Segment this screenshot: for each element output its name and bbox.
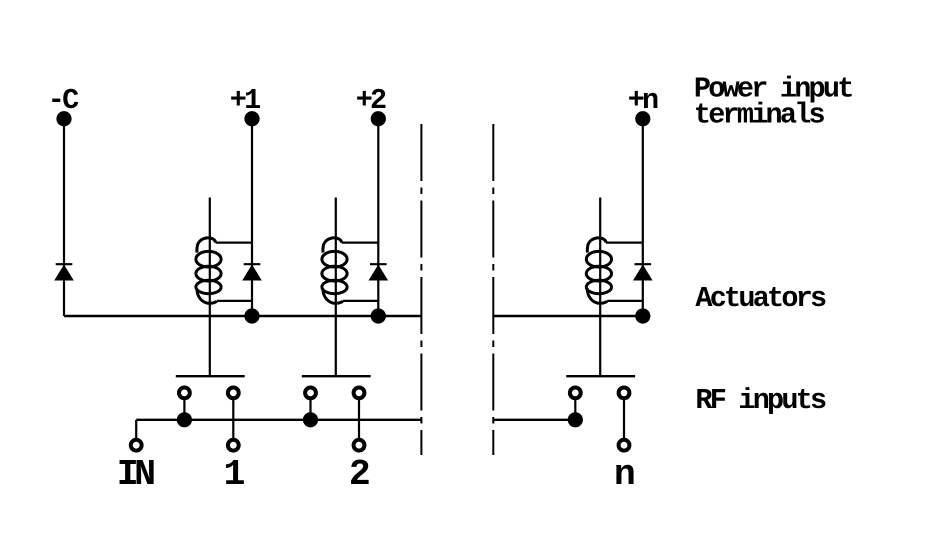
- wire S2 right contact: [358, 393, 360, 445]
- svg-text:+2: +2: [356, 84, 386, 117]
- svg-text:+n: +n: [628, 84, 658, 117]
- RF input port IN: [131, 440, 142, 451]
- diode D2: [243, 264, 261, 280]
- wire S3 right contact: [623, 393, 625, 445]
- wire actuator bus (left): [64, 315, 421, 317]
- wire S1 left contact: [183, 393, 185, 420]
- contact S1 upper left: [179, 388, 190, 399]
- wire S3 left contact: [574, 393, 576, 420]
- wire S2 left contact: [309, 393, 311, 420]
- switch S3 armature bar: [566, 375, 635, 377]
- break line (right): [492, 124, 494, 455]
- wire S1 right contact: [232, 393, 234, 445]
- contact S3 upper right: [619, 388, 630, 399]
- wire coil top connector K1: [216, 242, 252, 244]
- svg-text:1: 1: [224, 454, 245, 495]
- wire RF input bus (right): [493, 419, 575, 421]
- diode D4: [634, 264, 652, 280]
- switch S1 armature bar: [176, 375, 245, 377]
- relay coil K3: [586, 238, 611, 304]
- diode D1 (on -C branch): [55, 264, 73, 280]
- junction +2/bus: [371, 308, 386, 323]
- wire +n vertical: [642, 119, 644, 316]
- wire armature link K1: [209, 198, 211, 377]
- wire +1 vertical: [251, 119, 253, 316]
- power terminal -C: [56, 111, 71, 126]
- contact S2 upper left: [305, 388, 316, 399]
- power terminal +1: [244, 111, 259, 126]
- power terminal +n: [635, 111, 650, 126]
- contact S1 upper right: [228, 388, 239, 399]
- diode D3: [369, 264, 387, 280]
- wire coil top connector K2: [342, 242, 379, 244]
- svg-text:+1: +1: [230, 84, 260, 117]
- svg-text:2: 2: [349, 454, 369, 495]
- RF output port 2: [354, 440, 365, 451]
- RF output port n: [619, 440, 630, 451]
- junction +1/bus: [244, 308, 259, 323]
- relay coil K1: [196, 238, 221, 304]
- wire coil bottom connector K2: [343, 300, 379, 302]
- wire -C vertical: [63, 119, 65, 316]
- break line (left): [420, 124, 422, 455]
- contact S2 upper right: [354, 388, 365, 399]
- wire RF input bus (left): [136, 419, 421, 421]
- wire coil bottom connector K1: [217, 300, 252, 302]
- svg-text:Actuators: Actuators: [695, 282, 826, 315]
- wire armature link K2: [335, 198, 337, 377]
- relay coil K2: [322, 238, 347, 304]
- svg-text:RF inputs: RF inputs: [695, 384, 826, 417]
- svg-text:-C: -C: [48, 84, 79, 117]
- switch S2 armature bar: [302, 375, 371, 377]
- wire coil top connector K3: [606, 242, 643, 244]
- junction S3/RF bus: [568, 412, 583, 427]
- svg-text:terminals: terminals: [694, 99, 825, 132]
- contact S3 upper left: [570, 388, 581, 399]
- wire IN stub: [135, 420, 137, 445]
- junction S1/RF bus: [177, 412, 192, 427]
- junction +n/bus: [635, 308, 650, 323]
- junction S2/RF bus: [303, 412, 318, 427]
- wire armature link K3: [599, 198, 601, 377]
- svg-text:IN: IN: [117, 454, 154, 495]
- power terminal +2: [371, 111, 386, 126]
- svg-text:n: n: [614, 454, 634, 495]
- wire coil bottom connector K3: [607, 300, 643, 302]
- wire actuator bus (right): [493, 315, 643, 317]
- wire +2 vertical: [377, 119, 379, 316]
- RF output port 1: [228, 440, 239, 451]
